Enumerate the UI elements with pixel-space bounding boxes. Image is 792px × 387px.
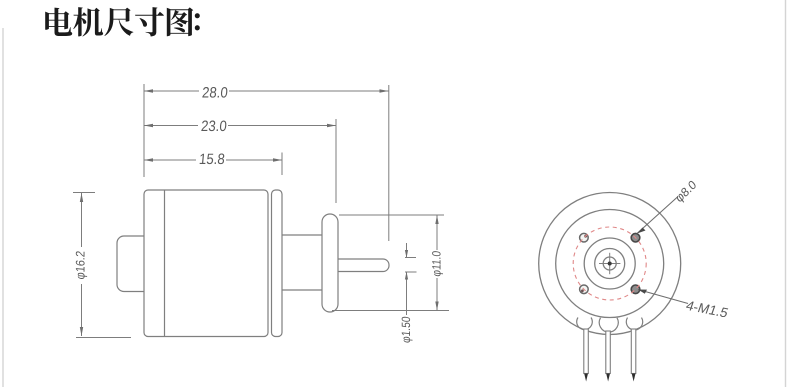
front view [539, 193, 681, 335]
boss top [282, 234, 323, 236]
dim 28.0 line [144, 90, 389, 92]
body cap line [164, 190, 166, 337]
flange capsule [322, 214, 338, 312]
boss circle [595, 249, 625, 279]
shaft [338, 259, 389, 272]
boss bottom [282, 289, 323, 291]
left extension line [143, 84, 145, 177]
bolt hole lower-right [631, 285, 640, 294]
phi16.2 bottom tick [76, 337, 131, 339]
dim phi11.0 top extension [339, 214, 444, 216]
page left border [2, 28, 4, 387]
center dot [608, 262, 612, 266]
arrowheads phi11.0 [435, 215, 438, 224]
dim 15.8 line [144, 159, 282, 161]
svg-text:4-M1.5: 4-M1.5 [684, 298, 730, 320]
bolt hole lower-left [580, 285, 589, 294]
svg-text:15.8: 15.8 [198, 151, 225, 168]
page right border [785, 0, 787, 387]
pin 2 [606, 331, 611, 374]
bolt hole upper-left [580, 233, 589, 242]
svg-text:φ16.2: φ16.2 [73, 250, 88, 280]
dim text backgrounds [75, 84, 443, 284]
phi1.50 upper arrow line [406, 243, 408, 257]
svg-text:28.0: 28.0 [201, 85, 228, 102]
leader 4-M1.5 [638, 290, 688, 304]
dim phi11.0 line [436, 215, 438, 311]
arrowheads phi1.50 [405, 250, 408, 258]
title 电机尺寸图: [45, 7, 200, 36]
phi1.50 lower line [406, 273, 408, 316]
wire bump middle [599, 318, 618, 332]
wire bump right [626, 318, 642, 330]
svg-text:φ1.50: φ1.50 [401, 316, 414, 344]
bolt circle (red dashed) [573, 227, 646, 300]
arrowheads phi16.2 [80, 193, 83, 202]
dim phi11.0 bottom extension [332, 310, 449, 312]
phi1.50 upper tick [405, 257, 416, 259]
arrowheads horizontal dims [144, 89, 153, 92]
rear bump [117, 236, 145, 292]
flange circle [556, 210, 664, 318]
dim 15.8 right extension [281, 153, 283, 176]
outer circle [539, 193, 681, 335]
svg-text:23.0: 23.0 [200, 118, 227, 135]
ring strip [272, 190, 283, 337]
leader phi8.0 [637, 197, 678, 234]
phi1.50 lower tick [405, 271, 417, 273]
dim phi16.2 line [81, 193, 83, 336]
motor body side view [144, 190, 268, 337]
pin 3 [631, 329, 636, 374]
crosshair [599, 263, 620, 265]
bolt hole upper-right [631, 233, 640, 242]
dim 23.0 right extension [335, 119, 337, 203]
svg-text:φ11.0: φ11.0 [431, 250, 444, 277]
pin 1 [584, 329, 589, 374]
svg-text:φ8.0: φ8.0 [673, 177, 699, 205]
wire bump left [577, 318, 593, 330]
phi16.2 top tick [73, 192, 95, 194]
shaft circle [603, 257, 616, 270]
dim 28.0 right extension [388, 85, 390, 241]
dim 23.0 line [144, 125, 336, 127]
hub circle [584, 238, 635, 289]
